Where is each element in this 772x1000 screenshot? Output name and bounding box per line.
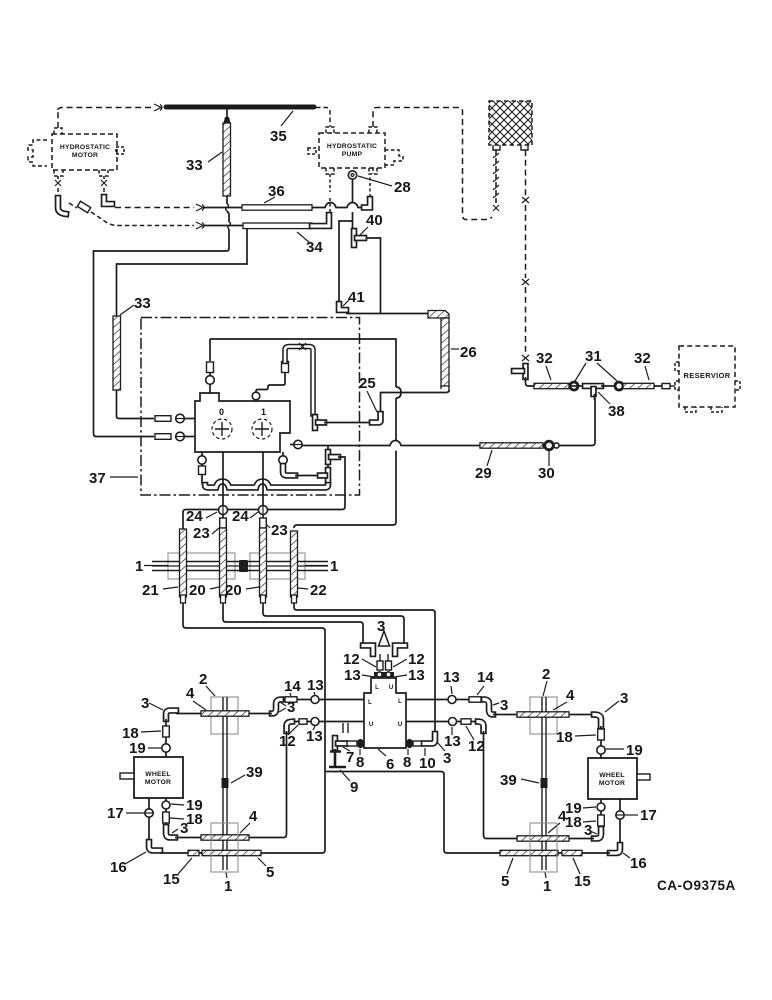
fitting 19 (right top circle) bbox=[597, 746, 605, 754]
wire: dashed supply line y=207.5 to arrow union bbox=[115, 207, 194, 209]
svg-text:CA-O9375A: CA-O9375A bbox=[657, 878, 736, 893]
joint 39 (left) bbox=[222, 778, 229, 788]
hose 4 (right bottom, hatched) bbox=[517, 836, 569, 841]
svg-text:WHEEL: WHEEL bbox=[599, 772, 625, 779]
elbow jog down to hose4R level bbox=[484, 700, 493, 715]
svg-text:13: 13 bbox=[443, 669, 460, 686]
fitting 8 (left, dark) bbox=[357, 739, 364, 748]
svg-text:8: 8 bbox=[356, 754, 364, 771]
svg-text:MOTOR: MOTOR bbox=[599, 780, 625, 787]
svg-text:1: 1 bbox=[224, 878, 232, 895]
motor bottom port stubs bbox=[54, 170, 63, 176]
axle housing (right lower) bbox=[530, 823, 557, 872]
svg-text:13: 13 bbox=[344, 667, 361, 684]
wire: upper left port line y=699.5 bbox=[281, 699, 364, 701]
hose 21 (hatched vertical) bbox=[180, 529, 187, 597]
wire: lower hose4R row right end bbox=[569, 838, 594, 840]
svg-text:U: U bbox=[398, 722, 402, 728]
svg-text:18: 18 bbox=[565, 814, 582, 831]
svg-text:23: 23 bbox=[193, 525, 210, 542]
svg-text:13: 13 bbox=[444, 733, 461, 750]
hose 32 (right, hatched) bbox=[623, 383, 654, 388]
wire: tube from hose 34 right turning up (capped) to pump lower-left dashed port bbox=[312, 215, 329, 226]
union on dashed line bbox=[101, 180, 107, 186]
valve right port tee bbox=[312, 417, 319, 428]
wire: dashed from motor top port up and right to hose 35 bbox=[58, 108, 152, 129]
svg-text:1: 1 bbox=[330, 558, 338, 575]
hose 4 (left bottom, hatched) bbox=[201, 835, 249, 840]
fitting 18 (left top rect) bbox=[163, 726, 170, 737]
stacked tee column under return line bbox=[327, 446, 329, 485]
svg-text:4: 4 bbox=[249, 808, 258, 825]
svg-text:13: 13 bbox=[306, 728, 323, 745]
wire: hose4L top line bbox=[176, 713, 272, 715]
wire: row segment bbox=[601, 385, 662, 387]
svg-text:29: 29 bbox=[475, 465, 492, 482]
svg-text:18: 18 bbox=[556, 729, 573, 746]
svg-text:28: 28 bbox=[394, 179, 411, 196]
union sleeve fitting bbox=[662, 384, 670, 389]
elbow 25 bbox=[372, 414, 381, 423]
wire: from hose 26 left to elbow 25 drop bbox=[381, 393, 442, 413]
elbow 3 (right bottom) bbox=[594, 829, 601, 839]
hose 26 top elbow (hatched) bbox=[428, 311, 449, 319]
axle housing (left lower) bbox=[211, 823, 238, 872]
svg-text:1: 1 bbox=[261, 407, 266, 417]
fitting 24 (right) bbox=[259, 506, 268, 515]
svg-text:20: 20 bbox=[189, 582, 206, 599]
wire: motor bottom right column (19/18/3) bbox=[165, 798, 167, 827]
tee 7 with arm to valve port 8 (left) bbox=[332, 738, 339, 749]
hose 29 (hatched) bbox=[480, 443, 543, 448]
axle shaft (left vertical) bbox=[223, 697, 227, 870]
elbow below motor right port bbox=[104, 197, 112, 204]
elbow 41 bbox=[339, 304, 346, 310]
fitting 24 (left) bbox=[219, 506, 228, 515]
fitting 8 (right, dark) + elbow 10 bbox=[406, 739, 413, 748]
wire: top line across box 37 and down right side bbox=[210, 339, 396, 528]
svg-text:31: 31 bbox=[585, 348, 602, 365]
valve top port 1 column: circle + rect fittings bbox=[209, 339, 211, 393]
fitting 31 (left) bbox=[570, 382, 578, 390]
hose 22 (hatched vertical) bbox=[291, 531, 298, 597]
wire: hose4R top line bbox=[493, 714, 594, 716]
union fittings on dashed return line bbox=[522, 197, 529, 203]
svg-text:WHEEL: WHEEL bbox=[145, 771, 171, 778]
hose 33 (left, hatched vertical) bbox=[113, 316, 121, 390]
svg-text:10: 10 bbox=[419, 755, 436, 772]
svg-text:3: 3 bbox=[443, 750, 451, 767]
svg-text:12: 12 bbox=[468, 738, 485, 755]
svg-text:4: 4 bbox=[566, 687, 575, 704]
svg-text:4: 4 bbox=[558, 808, 567, 825]
svg-text:RESERVIOR: RESERVIOR bbox=[684, 371, 731, 380]
svg-text:35: 35 bbox=[270, 128, 287, 145]
wire: stem from hose 34 down then left to hose 33 (left) bbox=[117, 229, 248, 317]
svg-text:26: 26 bbox=[460, 344, 477, 361]
elbow 3 (right motor top) bbox=[594, 715, 601, 727]
wire: hose5/15 left row bbox=[160, 852, 202, 854]
fitting 18 (left bottom rect) bbox=[163, 812, 170, 823]
motor top port stub bbox=[54, 128, 62, 134]
svg-text:9: 9 bbox=[350, 779, 358, 796]
hose 26 bottom elbow bbox=[441, 386, 449, 392]
box 37 (dash-dot frame) bbox=[141, 318, 360, 496]
hydrostatic motor box bbox=[52, 134, 117, 170]
wire: into reservoir bbox=[670, 385, 675, 387]
svg-text:3: 3 bbox=[287, 699, 295, 716]
wire: from below hose33-top down, left, and down to valve port line 2 bbox=[94, 196, 230, 437]
manifold tube under valve with bumps bbox=[205, 482, 328, 488]
hose 4 (left top, hatched) bbox=[201, 711, 249, 716]
fitting 17 (left circle) bbox=[145, 809, 153, 817]
fitting 17 (right circle) bbox=[616, 811, 624, 819]
hose 5 (right, hatched) bbox=[500, 850, 558, 855]
diamond union on diagonal hose bbox=[69, 203, 77, 208]
svg-text:25: 25 bbox=[359, 375, 376, 392]
svg-text:15: 15 bbox=[163, 871, 180, 888]
wire: motor top column (right) bbox=[600, 726, 602, 758]
svg-text:L: L bbox=[368, 700, 372, 706]
anchor tee with arrow (3) bbox=[363, 646, 373, 655]
svg-text:20: 20 bbox=[225, 582, 242, 599]
wire: dashed from motor bottom-left port down bbox=[57, 176, 59, 196]
wire: pump 28 down (main pressure line) bbox=[352, 179, 354, 229]
svg-text:MOTOR: MOTOR bbox=[145, 779, 171, 786]
svg-text:40: 40 bbox=[366, 212, 383, 229]
valve left port fittings line 1 bbox=[155, 416, 171, 422]
wire: dashed from filter right port down to reservoir tee bbox=[525, 150, 527, 354]
hose 36 (plain tube) bbox=[242, 205, 312, 210]
valve bottom internal port A (circle+rect) bbox=[202, 452, 204, 485]
svg-text:32: 32 bbox=[536, 350, 553, 367]
wire: dashed pump top-right port up, right to crosshatch filter bbox=[373, 108, 492, 220]
union arrow fitting at hose35 left end bbox=[154, 104, 162, 111]
wire: hose5/15 right row bbox=[558, 852, 610, 854]
wire: from fitting 40 arm right then down to relief line bbox=[366, 238, 381, 314]
wire: line1 continues right with crossover bumps to pump elbow bbox=[312, 203, 364, 208]
svg-text:L: L bbox=[375, 685, 379, 691]
bulge where x396 crosses return y392.5 bbox=[396, 387, 401, 398]
wire: upper right port line y=699.5 bbox=[406, 699, 484, 701]
svg-text:33: 33 bbox=[134, 295, 151, 312]
hose 20 (left hatched) bbox=[220, 528, 227, 597]
box 2 (right axle tower) bbox=[530, 697, 557, 734]
svg-text:16: 16 bbox=[110, 859, 127, 876]
svg-text:1: 1 bbox=[543, 878, 551, 895]
pump bottom port stubs bbox=[326, 168, 377, 174]
wire: hose 21 down-right to return manifold drop bbox=[183, 603, 325, 850]
svg-text:32: 32 bbox=[634, 350, 651, 367]
svg-text:24: 24 bbox=[232, 508, 249, 525]
union on dashed line bbox=[55, 180, 61, 186]
elbow 3 (left bottom) bbox=[166, 827, 175, 838]
wire: motor bottom right column (17/16 right) bbox=[619, 799, 621, 845]
joint 39 (right) bbox=[541, 778, 548, 788]
svg-text:U: U bbox=[389, 685, 393, 691]
svg-text:39: 39 bbox=[500, 772, 517, 789]
valve bottom internal port B (circle+elbow) bbox=[282, 452, 284, 456]
I-beam anchor 9 under tee 7 bbox=[329, 749, 346, 767]
svg-text:1: 1 bbox=[135, 558, 143, 575]
wire: hose 20L to anchor left drop bbox=[223, 603, 363, 643]
svg-text:4: 4 bbox=[186, 685, 195, 702]
svg-text:13: 13 bbox=[408, 667, 425, 684]
svg-text:22: 22 bbox=[310, 582, 327, 599]
svg-text:19: 19 bbox=[626, 742, 643, 759]
motor right port connector bbox=[116, 147, 124, 154]
wire: bottom link line from I-beam right to hose5R drop bbox=[325, 772, 500, 854]
hose 20 (right hatched) bbox=[260, 528, 267, 597]
svg-text:14: 14 bbox=[477, 669, 494, 686]
elbow jog down to hose4L level bbox=[272, 700, 281, 714]
braided hose below filter left port (with ticks) bbox=[495, 150, 497, 204]
svg-text:37: 37 bbox=[89, 470, 106, 487]
hose 15 (left, hatched) bbox=[188, 850, 199, 855]
svg-text:2: 2 bbox=[542, 666, 550, 683]
J elbow fitting bbox=[58, 198, 66, 214]
reservoir left port tabs bbox=[675, 362, 679, 390]
pump top port stubs bbox=[326, 127, 377, 133]
svg-text:38: 38 bbox=[608, 403, 625, 420]
svg-text:PUMP: PUMP bbox=[342, 151, 363, 158]
tee 38 bbox=[585, 383, 601, 390]
axle shaft (right vertical) bbox=[542, 697, 546, 870]
wire: down to lower hose4R row bbox=[484, 731, 518, 839]
svg-text:8: 8 bbox=[403, 754, 411, 771]
svg-text:13: 13 bbox=[307, 677, 324, 694]
wire: main return line y=445.5 from valve to reservoir riser bbox=[302, 441, 480, 446]
crosshatch filter box bbox=[489, 101, 532, 145]
wire: motor top column bbox=[165, 719, 167, 757]
hose 32 (left, hatched) bbox=[534, 383, 569, 388]
svg-text:17: 17 bbox=[107, 805, 124, 822]
elbow 16 (left) bbox=[149, 842, 160, 851]
elbow 3 (left motor top) bbox=[166, 711, 176, 720]
reservoir box bbox=[679, 346, 735, 407]
wire: hose 22 to control valve drop bbox=[294, 603, 435, 733]
svg-text:21: 21 bbox=[142, 582, 159, 599]
fitting 30 bbox=[545, 441, 554, 450]
svg-text:36: 36 bbox=[268, 183, 285, 200]
arrow union fitting bbox=[196, 204, 204, 211]
svg-text:3: 3 bbox=[180, 820, 188, 837]
svg-text:HYDROSTATIC: HYDROSTATIC bbox=[60, 144, 110, 151]
svg-text:33: 33 bbox=[186, 157, 203, 174]
fitting 23 (right rect) bbox=[260, 518, 267, 528]
union fitting on braid bbox=[493, 205, 499, 211]
fitting 19 (right bottom circle) bbox=[597, 803, 605, 811]
svg-text:30: 30 bbox=[538, 465, 555, 482]
wire: row segment bbox=[569, 385, 583, 387]
wire: main axle feed verticals from valve ports bbox=[223, 452, 263, 518]
hose 33 (top, hatched vertical) bbox=[223, 123, 231, 196]
svg-text:14: 14 bbox=[284, 678, 301, 695]
fitting 19 (left bottom circle) bbox=[162, 801, 170, 809]
svg-text:3: 3 bbox=[141, 695, 149, 712]
wheel motor (right) bbox=[588, 758, 650, 799]
svg-text:24: 24 bbox=[186, 508, 203, 525]
hose 4 (right top, hatched) bbox=[517, 712, 569, 717]
valve 6 body bbox=[364, 678, 406, 748]
fitting 19 (left top circle) bbox=[162, 744, 170, 752]
cross mark at tube junction bbox=[299, 343, 306, 350]
reservoir bottom feet bbox=[685, 407, 722, 412]
wire: lower hose4L row bbox=[175, 837, 253, 839]
svg-text:18: 18 bbox=[186, 811, 203, 828]
pump left small port bbox=[308, 148, 316, 154]
hose 5 (left, hatched) bbox=[202, 850, 261, 855]
fitting 28 (circle below pump) bbox=[348, 171, 356, 179]
motor left connector bbox=[28, 140, 47, 166]
elbow turning down to rear axle feed bbox=[287, 722, 293, 732]
svg-text:16: 16 bbox=[630, 855, 647, 872]
wire: line2 from arrow to hose 34 bbox=[204, 225, 243, 227]
tee stem from hose 35 down to hose 33 bbox=[226, 109, 228, 118]
svg-text:3: 3 bbox=[377, 618, 385, 635]
arrow union fitting (lower) bbox=[196, 222, 204, 229]
fitting 18 (right bottom rect) bbox=[598, 815, 605, 826]
axle housing boxes bbox=[168, 553, 235, 579]
fitting 40 (tee) bbox=[351, 231, 358, 245]
hose 35 (solid bar) bbox=[166, 105, 314, 110]
svg-text:23: 23 bbox=[271, 522, 288, 539]
svg-text:3: 3 bbox=[500, 697, 508, 714]
axle shafts bbox=[152, 562, 328, 571]
tee fitting below filter return bbox=[522, 366, 529, 377]
valve bottom-right notch port bbox=[294, 440, 302, 448]
svg-text:19: 19 bbox=[129, 740, 146, 757]
fitting 31 (right) bbox=[615, 382, 623, 390]
pump right connector bbox=[385, 150, 403, 165]
wire: tee arm right to elbow 25 bbox=[324, 422, 371, 424]
wire: lower right port line y=721.5 bbox=[406, 721, 478, 723]
wire: dashed from motor bottom-right port to elbow bbox=[103, 176, 105, 195]
axle center joint bbox=[239, 560, 248, 572]
svg-text:7: 7 bbox=[346, 749, 354, 766]
elbow fitting to pump lower-right dashed port bbox=[364, 199, 370, 208]
wire: motor bottom left column (19/18/3 right side) bbox=[600, 799, 602, 829]
hose 34 (plain tube) bbox=[243, 223, 312, 229]
wire: lower left port line y=721.5 bbox=[292, 721, 364, 723]
svg-text:MOTOR: MOTOR bbox=[72, 152, 98, 159]
wheel motor (left) bbox=[120, 757, 183, 798]
fitting 23 (left rect) bbox=[220, 518, 227, 528]
hose 15 (right, hatched) bbox=[562, 850, 582, 855]
wire: dashed elbow hose35 right end to pump top-left port bbox=[316, 108, 330, 128]
wire: motor bottom left column (17/16) bbox=[148, 798, 150, 842]
wire: relief line from elbow 41 right to hose 26 elbow bbox=[346, 313, 429, 315]
reservoir right tab bbox=[735, 381, 740, 390]
hose 26 (hatched vertical) bbox=[441, 318, 449, 386]
svg-text:12: 12 bbox=[408, 651, 425, 668]
spool symbol 1 (dashed circle with cross) bbox=[252, 419, 272, 439]
jogs over line1/line2 bbox=[226, 204, 231, 229]
wire: hose 20R to anchor right drop bbox=[263, 603, 404, 643]
svg-text:15: 15 bbox=[574, 873, 591, 890]
fitting 18 (right top rect) bbox=[598, 729, 605, 740]
svg-text:HYDROSTATIC: HYDROSTATIC bbox=[327, 143, 377, 150]
svg-text:0: 0 bbox=[219, 407, 224, 417]
wire: tee 38 stem down to return line bbox=[594, 394, 596, 400]
wire: from tee arm right, down, and left to hose 21 drop bbox=[183, 457, 345, 529]
hydrostatic pump box bbox=[319, 133, 385, 168]
wire: corner into reservoir row bbox=[526, 377, 535, 386]
svg-text:5: 5 bbox=[266, 864, 274, 881]
valve 6 top port stubs and fittings 12/13 bbox=[380, 654, 388, 662]
wire: down to lower hose4L row bbox=[253, 731, 287, 838]
svg-text:41: 41 bbox=[348, 289, 365, 306]
wire: below hose 33 left, down and into valve port line 1 bbox=[117, 390, 155, 419]
wire: left vertical continues to left hose5 row (corner) bbox=[261, 850, 325, 853]
double tick mark above tee 7 bbox=[343, 723, 348, 733]
svg-text:5: 5 bbox=[501, 873, 509, 890]
svg-text:6: 6 bbox=[386, 756, 394, 773]
wire: branch from main vertical to elbow 41 bbox=[339, 221, 353, 303]
svg-text:39: 39 bbox=[246, 764, 263, 781]
valve top port 2 zigzag to relief tube bbox=[252, 392, 260, 400]
elbow 16 (right) bbox=[610, 845, 620, 853]
wire: line1 from arrow to hose 36 bbox=[204, 207, 242, 209]
svg-text:17: 17 bbox=[640, 807, 657, 824]
box 2 (left axle tower) bbox=[211, 697, 238, 734]
spool symbol O (dashed circle with cross) bbox=[212, 419, 232, 439]
svg-text:U: U bbox=[369, 722, 373, 728]
svg-text:3: 3 bbox=[584, 822, 592, 839]
svg-text:12: 12 bbox=[343, 651, 360, 668]
filter bottom stubs bbox=[493, 145, 528, 150]
svg-text:L: L bbox=[398, 699, 402, 705]
svg-text:2: 2 bbox=[199, 671, 207, 688]
svg-text:3: 3 bbox=[620, 690, 628, 707]
valve body bbox=[195, 393, 290, 452]
valve left port fittings line 2 bbox=[155, 434, 171, 440]
elbow turning down (rear axle feed right) bbox=[478, 722, 484, 732]
